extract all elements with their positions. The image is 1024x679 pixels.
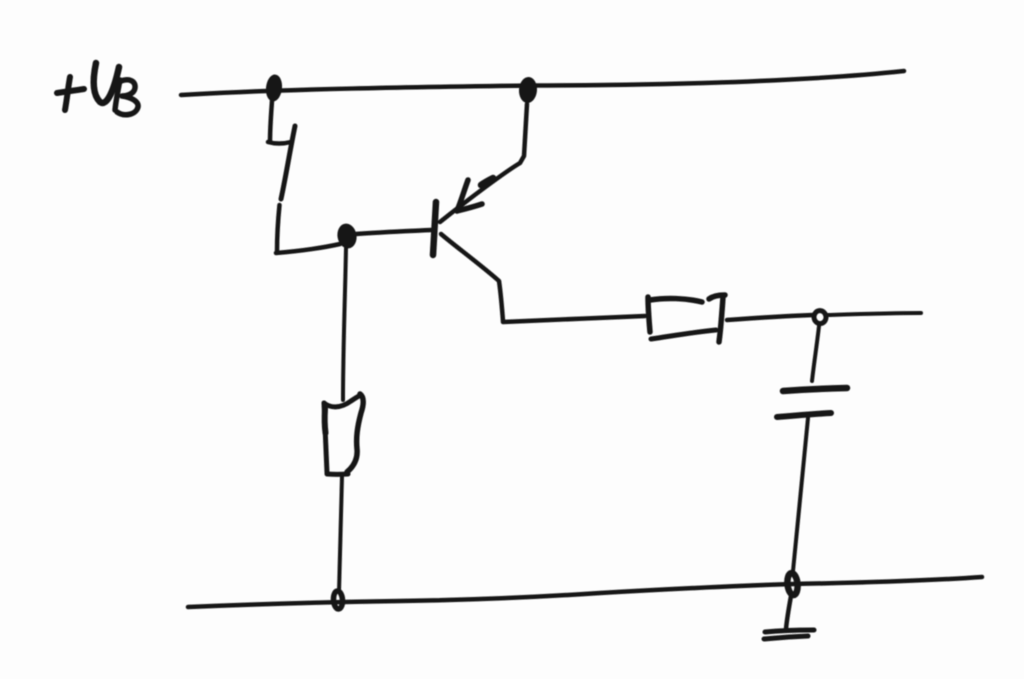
junction: top rail tap for base resistor	[265, 74, 284, 103]
resistor R2	[324, 394, 363, 474]
resistor R1	[648, 295, 725, 342]
junction: bottom rail / R2 ring	[333, 591, 343, 610]
junction: base node A	[335, 222, 358, 250]
wire: C1 to bottom rail	[793, 418, 808, 571]
wire: top +UB supply rail	[181, 71, 904, 95]
transistor Q1 emitter lead pressure dash	[481, 178, 493, 185]
net label +UB	[57, 63, 138, 115]
junction: top rail tap for emitter	[518, 76, 538, 103]
capacitor C1	[777, 388, 847, 417]
wire: R2 to bottom rail	[339, 476, 342, 592]
wire: output node down to capacitor C1	[812, 326, 819, 381]
junction: bottom rail / ground tap ring	[786, 573, 798, 596]
wire: collector lead down from Q1	[441, 234, 503, 321]
junction: output node ring	[813, 310, 826, 324]
wire: bottom ground rail	[188, 577, 982, 607]
ground	[764, 630, 814, 639]
wire: collector to resistor R1	[503, 316, 645, 322]
wire: base lead to Q1	[356, 230, 431, 234]
wire: node A down to resistor R2	[343, 248, 346, 400]
transistor Q1 base bar	[433, 202, 436, 255]
wire: output node to right edge	[828, 313, 921, 315]
wire: ground stem	[786, 596, 791, 629]
wire: emitter lead from top rail	[440, 104, 527, 222]
transistor Q1 emitter arrowhead (PNP)	[457, 180, 482, 211]
wire: top rail down to base node (kinked segment)	[268, 101, 340, 253]
wire: R1 to output node	[727, 315, 813, 320]
